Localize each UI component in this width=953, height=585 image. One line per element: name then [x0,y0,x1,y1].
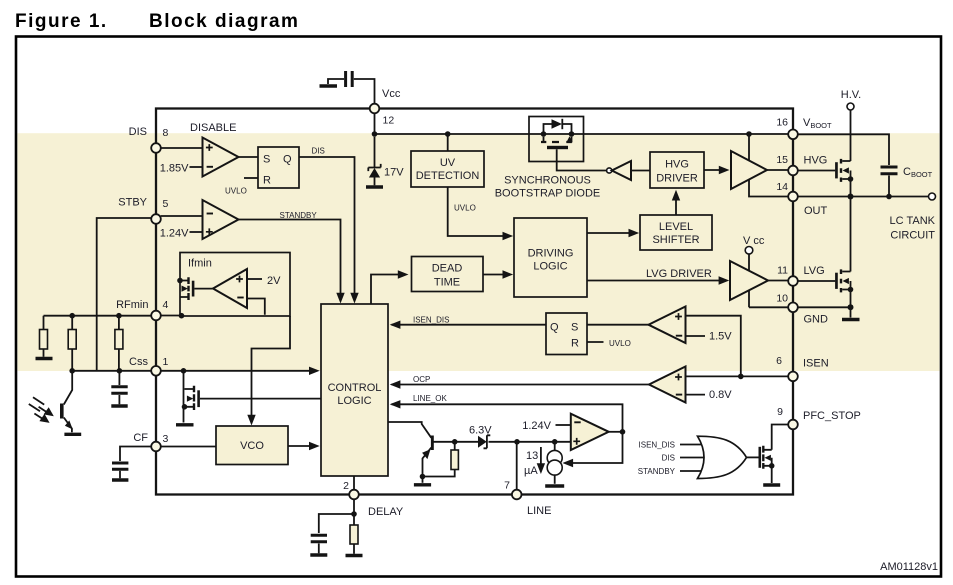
svg-text:DIS: DIS [312,147,325,156]
svg-text:1.24V: 1.24V [160,228,189,240]
svg-text:VCO: VCO [240,440,264,452]
svg-text:DRIVING: DRIVING [528,248,574,260]
svg-text:LOGIC: LOGIC [337,395,371,407]
svg-text:10: 10 [776,293,788,305]
svg-text:CIRCUIT: CIRCUIT [890,230,935,242]
svg-text:LINE_OK: LINE_OK [413,394,447,403]
svg-text:DIS: DIS [129,126,147,138]
svg-text:LVG: LVG [804,265,825,277]
svg-text:2: 2 [343,480,349,492]
svg-text:12: 12 [383,115,395,127]
svg-text:BOOTSTRAP DIODE: BOOTSTRAP DIODE [495,188,601,200]
svg-text:1.5V: 1.5V [709,331,732,343]
svg-text:Q: Q [283,154,292,166]
svg-text:DISABLE: DISABLE [190,122,236,134]
svg-text:Ifmin: Ifmin [188,258,212,270]
svg-text:5: 5 [163,198,169,210]
svg-text:Q: Q [550,322,559,334]
svg-text:Vcc: Vcc [382,88,401,100]
svg-text:11: 11 [777,265,788,277]
svg-text:DELAY: DELAY [368,506,404,518]
svg-text:ISEN: ISEN [803,358,829,370]
svg-text:R: R [263,175,271,187]
svg-text:UV: UV [440,157,456,169]
svg-text:STANDBY: STANDBY [638,467,676,476]
svg-text:STANDBY: STANDBY [280,211,318,220]
svg-text:Block diagram: Block diagram [149,11,299,32]
svg-text:LINE: LINE [527,505,551,517]
svg-text:RFmin: RFmin [116,299,148,311]
svg-text:15: 15 [776,154,788,166]
svg-text:7: 7 [504,480,510,492]
svg-text:1: 1 [163,356,169,368]
svg-text:LVG DRIVER: LVG DRIVER [646,268,712,280]
svg-text:TIME: TIME [434,277,460,289]
svg-text:S: S [263,154,270,166]
svg-text:HVG: HVG [804,155,828,167]
svg-text:S: S [571,322,578,334]
svg-text:4: 4 [163,299,169,311]
svg-text:CF: CF [133,432,148,444]
svg-text:SYNCHRONOUS: SYNCHRONOUS [504,175,591,187]
svg-text:1.24V: 1.24V [522,420,551,432]
svg-text:3: 3 [163,433,169,445]
svg-text:ISEN_DIS: ISEN_DIS [413,315,449,324]
svg-text:HVG: HVG [665,159,689,171]
svg-text:UVLO: UVLO [609,339,631,348]
svg-text:AM01128v1: AM01128v1 [880,561,938,573]
svg-text:14: 14 [776,181,788,193]
svg-text:DETECTION: DETECTION [416,170,480,182]
svg-text:LOGIC: LOGIC [533,261,567,273]
svg-text:PFC_STOP: PFC_STOP [803,410,861,422]
svg-text:H.V.: H.V. [841,89,861,101]
svg-text:µA: µA [524,465,538,477]
svg-text:2V: 2V [267,275,281,287]
svg-text:STBY: STBY [118,197,147,209]
svg-text:0.8V: 0.8V [709,389,732,401]
svg-text:17V: 17V [384,167,404,179]
svg-text:13: 13 [526,450,538,462]
svg-text:DEAD: DEAD [432,263,463,275]
svg-text:R: R [571,338,579,350]
svg-text:Figure 1.: Figure 1. [15,11,108,32]
svg-text:DRIVER: DRIVER [656,173,698,185]
svg-text:OCP: OCP [413,375,430,384]
svg-text:LEVEL: LEVEL [659,221,693,233]
svg-text:6.3V: 6.3V [469,425,492,437]
svg-text:CONTROL: CONTROL [328,382,382,394]
svg-text:SHIFTER: SHIFTER [652,234,699,246]
svg-text:V cc: V cc [743,235,765,247]
svg-text:OUT: OUT [804,205,828,217]
svg-text:LC TANK: LC TANK [890,215,936,227]
svg-text:ISEN_DIS: ISEN_DIS [639,441,675,450]
svg-text:8: 8 [163,127,169,139]
svg-text:6: 6 [776,355,782,367]
svg-text:UVLO: UVLO [225,187,247,196]
svg-text:16: 16 [776,117,788,129]
svg-text:9: 9 [777,406,783,418]
svg-text:DIS: DIS [662,454,675,463]
svg-text:Css: Css [129,356,148,368]
svg-text:GND: GND [804,314,829,326]
svg-text:UVLO: UVLO [454,204,476,213]
svg-text:1.85V: 1.85V [160,163,189,175]
